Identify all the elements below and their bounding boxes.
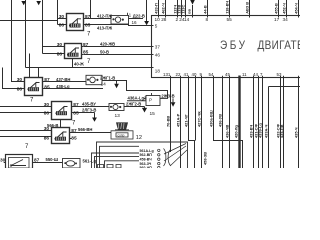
svg-text:86: 86 xyxy=(17,87,23,93)
wire relay R1 pin86 stub xyxy=(58,24,67,26)
svg-text:86: 86 xyxy=(59,23,65,29)
connector 13 xyxy=(109,104,124,111)
svg-text:18: 18 xyxy=(155,68,161,73)
ECU top wires xyxy=(159,0,299,18)
svg-text:46: 46 xyxy=(155,53,161,58)
relay R5 xyxy=(50,128,72,144)
svg-text:87: 87 xyxy=(71,128,77,134)
svg-text:458-ВЧ: 458-ВЧ xyxy=(140,158,153,162)
svg-text:451А-Р: 451А-Р xyxy=(176,113,181,127)
ECU left pin ticks xyxy=(150,26,154,68)
svg-text:30: 30 xyxy=(59,14,65,20)
wire ECU pin37 from relay R2 xyxy=(84,46,152,48)
relay R1 xyxy=(65,14,86,31)
svg-text:430а-ВШ: 430а-ВШ xyxy=(209,110,214,127)
wire 438 relay R3 lower xyxy=(43,88,104,90)
svg-text:14: 14 xyxy=(101,81,107,87)
svg-text:434-ПВ: 434-ПВ xyxy=(279,124,284,138)
wire 436A to P box 15 xyxy=(127,100,146,102)
relay R3 xyxy=(23,78,45,96)
svg-text:5: 5 xyxy=(155,24,158,29)
svg-text:2ЖЗ-В: 2ЖЗ-В xyxy=(161,93,174,98)
svg-text:413-ПЖ: 413-ПЖ xyxy=(97,25,112,30)
wire into relay R5 pin30 xyxy=(0,130,52,132)
wire into relay R5 pin86 xyxy=(0,136,52,138)
svg-text:85: 85 xyxy=(85,23,91,29)
wire vertical V3 xyxy=(42,0,44,54)
ECU bottom wires left group xyxy=(171,76,243,168)
svg-text:421-ЧГ: 421-ЧГ xyxy=(184,113,189,127)
arrow into V3 top xyxy=(36,1,41,5)
svg-text:86: 86 xyxy=(44,136,50,142)
wire relay R1 pin30 stub xyxy=(58,18,67,20)
wire vertical V4 xyxy=(57,0,59,25)
svg-text:455-В: 455-В xyxy=(274,3,279,14)
svg-text:562-ВП: 562-ВП xyxy=(140,153,153,157)
svg-text:2ЖГ2-В: 2ЖГ2-В xyxy=(126,102,141,107)
svg-text:435-Ч: 435-Ч xyxy=(293,127,298,138)
svg-text:87: 87 xyxy=(44,77,50,83)
harness small boxes xyxy=(98,165,122,168)
stub and arrow below 2Zh3 row xyxy=(172,98,174,102)
svg-text:85: 85 xyxy=(83,50,89,56)
pump connector symbol xyxy=(111,13,129,24)
svg-text:вв: вв xyxy=(187,8,192,13)
svg-text:433-П: 433-П xyxy=(154,3,159,14)
svg-text:50-В: 50-В xyxy=(100,49,109,54)
arrow after connector 13 xyxy=(142,107,147,109)
wire ECU pin46 from relay R2 xyxy=(84,54,152,56)
svg-text:40: 40 xyxy=(192,72,197,77)
svg-text:87: 87 xyxy=(34,158,40,164)
svg-text:17: 17 xyxy=(274,17,280,22)
svg-text:45: 45 xyxy=(225,72,230,77)
svg-text:13: 13 xyxy=(115,113,121,119)
svg-text:40-Ж: 40-Ж xyxy=(74,61,84,66)
wire horizontal into relay R2 pin30 xyxy=(43,46,65,48)
svg-text:436-УВ: 436-УВ xyxy=(218,114,223,127)
svg-text:14: 14 xyxy=(184,17,190,22)
svg-text:433А-Ч: 433А-Ч xyxy=(263,124,268,138)
svg-text:28: 28 xyxy=(161,17,167,22)
svg-text:12: 12 xyxy=(136,135,142,141)
wire D22 out of pump connector xyxy=(129,18,144,20)
drop and ground arrow under relay R4 85 wire xyxy=(94,113,96,118)
stub and ground arrow on connector 14 out wire xyxy=(116,81,118,84)
svg-text:41: 41 xyxy=(184,72,189,77)
svg-text:10: 10 xyxy=(155,17,161,22)
wire vertical V2 xyxy=(25,0,27,68)
arrow on wire x192.5 xyxy=(190,0,195,5)
svg-text:30: 30 xyxy=(0,158,6,164)
svg-text:550-Ш: 550-Ш xyxy=(46,157,59,162)
harness wire row labels xyxy=(140,149,154,170)
svg-text:427С-ЧК: 427С-ЧК xyxy=(197,111,202,127)
connector 14 xyxy=(86,75,102,84)
svg-text:АВЗ В: АВЗ В xyxy=(245,2,250,14)
svg-text:70-ВВ: 70-ВВ xyxy=(166,116,171,127)
svg-text:85: 85 xyxy=(73,111,79,117)
wire connector 13 out xyxy=(124,106,145,108)
svg-text:2ЖГ1-В: 2ЖГ1-В xyxy=(100,75,115,80)
svg-text:86: 86 xyxy=(57,52,63,58)
svg-text:2ЛГ3-В: 2ЛГ3-В xyxy=(82,107,96,112)
svg-text:560-ЧП: 560-ЧП xyxy=(140,166,153,168)
ECU top pin numbers xyxy=(155,17,289,22)
svg-text:30: 30 xyxy=(57,42,63,48)
harness diagonals xyxy=(164,144,187,167)
wire relay R4 87 to connector 13 xyxy=(72,106,110,108)
svg-text:85: 85 xyxy=(44,84,50,90)
svg-text:30: 30 xyxy=(44,102,50,108)
svg-text:412-ПЖ: 412-ПЖ xyxy=(97,13,112,18)
harness fan corner w4 xyxy=(105,161,140,168)
svg-text:454-Ч: 454-Ч xyxy=(294,3,299,14)
P box 15 xyxy=(144,93,160,106)
relay R6 bottom-left xyxy=(4,155,35,169)
svg-text:131: 131 xyxy=(163,72,171,77)
wire 437 relay R3 to connector 14 xyxy=(43,81,87,83)
svg-text:420-Лg: 420-Лg xyxy=(233,124,238,138)
svg-text:30: 30 xyxy=(17,77,23,83)
bottom rotated wire labels left group xyxy=(166,110,223,127)
wire relay R2 bottom drop xyxy=(72,59,74,68)
injector symbol above box 12 xyxy=(115,123,129,130)
harness fan corner w1 xyxy=(100,146,140,168)
svg-text:437-ВН: 437-ВН xyxy=(56,77,70,82)
wire into relay R4 pin86 xyxy=(0,112,52,114)
relay R2 xyxy=(63,44,84,59)
thick wire pin 11 xyxy=(238,76,240,169)
arrow into V2 top xyxy=(21,1,26,5)
junction arrow down on pin5 wire xyxy=(144,21,149,25)
svg-text:55: 55 xyxy=(227,17,233,22)
wire relay R6 to oval connector xyxy=(33,162,63,164)
wire relay R4 bottom drop xyxy=(60,120,62,128)
wire vertical V1 left to relay R3 pin30 xyxy=(12,0,25,82)
svg-text:458-ЗВ: 458-ЗВ xyxy=(203,152,208,165)
ECU bottom wires right group xyxy=(230,76,310,168)
wire 412 relay R1 to pump connector xyxy=(84,18,112,20)
wire relay R4 85 lower xyxy=(72,112,95,114)
svg-text:87: 87 xyxy=(83,42,89,48)
wire horizontal into relay R2 pin86 xyxy=(43,53,65,55)
harness fan corner w3 xyxy=(95,156,140,168)
svg-text:420-ЖВ: 420-ЖВ xyxy=(100,41,115,46)
wire into relay R4 pin30 xyxy=(0,106,52,108)
relay R4 xyxy=(50,102,74,120)
svg-text:ЭБУ: ЭБУ xyxy=(220,39,248,52)
svg-text:22: 22 xyxy=(176,72,181,77)
svg-text:Р: Р xyxy=(149,98,152,103)
svg-text:37: 37 xyxy=(155,45,161,50)
svg-text:сопр: сопр xyxy=(118,134,125,138)
svg-text:15: 15 xyxy=(150,111,156,117)
bottom rotated wire labels right group xyxy=(224,123,298,138)
wire vertical feed x90 xyxy=(90,0,92,19)
svg-text:11: 11 xyxy=(242,72,247,77)
wire vertical x29.5 to relay R3 top xyxy=(29,54,31,78)
ECU box xyxy=(152,16,310,78)
harness bundle arcs xyxy=(164,144,188,167)
svg-text:86: 86 xyxy=(44,111,50,117)
wire horizontal top-left bus xyxy=(0,20,58,22)
wire 413 relay R1 to ECU pin5 xyxy=(84,25,152,26)
svg-text:561А-Lg: 561А-Lg xyxy=(140,149,154,153)
svg-text:436-ЧВ: 436-ЧВ xyxy=(224,124,229,138)
svg-text:34: 34 xyxy=(283,17,289,22)
svg-text:85: 85 xyxy=(71,136,77,142)
wire drop from bus to relay R3 top xyxy=(38,68,40,78)
svg-text:16: 16 xyxy=(132,20,138,25)
svg-text:113С: 113С xyxy=(181,5,186,14)
harness block bottom-center outer frame xyxy=(92,142,188,168)
svg-text:4339-Lg: 4339-Lg xyxy=(258,123,263,138)
svg-text:87: 87 xyxy=(85,14,91,20)
svg-text:Д22-В: Д22-В xyxy=(133,13,145,18)
svg-text:44: 44 xyxy=(253,72,258,77)
wire vertical feed x146.5 xyxy=(146,0,148,21)
wire relay R5 87 to box 12 xyxy=(70,132,112,134)
oval connector bottom-left xyxy=(63,159,81,169)
svg-text:87: 87 xyxy=(73,102,79,108)
wire left drop to relay R3 pin86 xyxy=(3,68,25,89)
box 12 xyxy=(111,131,133,139)
svg-text:462-Ч: 462-Ч xyxy=(161,3,166,14)
svg-text:54: 54 xyxy=(209,72,214,77)
wire long bus to ECU pin18 xyxy=(26,67,152,69)
svg-text:8: 8 xyxy=(206,17,209,22)
svg-text:2: 2 xyxy=(176,17,179,22)
wire connector 14 out and bend xyxy=(102,81,168,99)
svg-text:53: 53 xyxy=(277,72,282,77)
svg-text:44-В: 44-В xyxy=(203,5,208,14)
svg-text:ДВИГАТЕЛЯ: ДВИГАТЕЛЯ xyxy=(258,39,301,52)
svg-text:118-ВЧ: 118-ВЧ xyxy=(225,1,230,14)
harness fan corner w2 xyxy=(92,153,140,168)
svg-text:452-Ч: 452-Ч xyxy=(282,3,287,14)
svg-text:438-Lg: 438-Lg xyxy=(56,84,70,89)
svg-text:435-ВУ: 435-ВУ xyxy=(82,101,96,106)
ECU top rotated wire labels xyxy=(154,1,299,14)
ECU bottom pin numbers xyxy=(163,72,282,77)
svg-text:566-ВН: 566-ВН xyxy=(78,127,92,132)
svg-text:30: 30 xyxy=(44,126,50,132)
